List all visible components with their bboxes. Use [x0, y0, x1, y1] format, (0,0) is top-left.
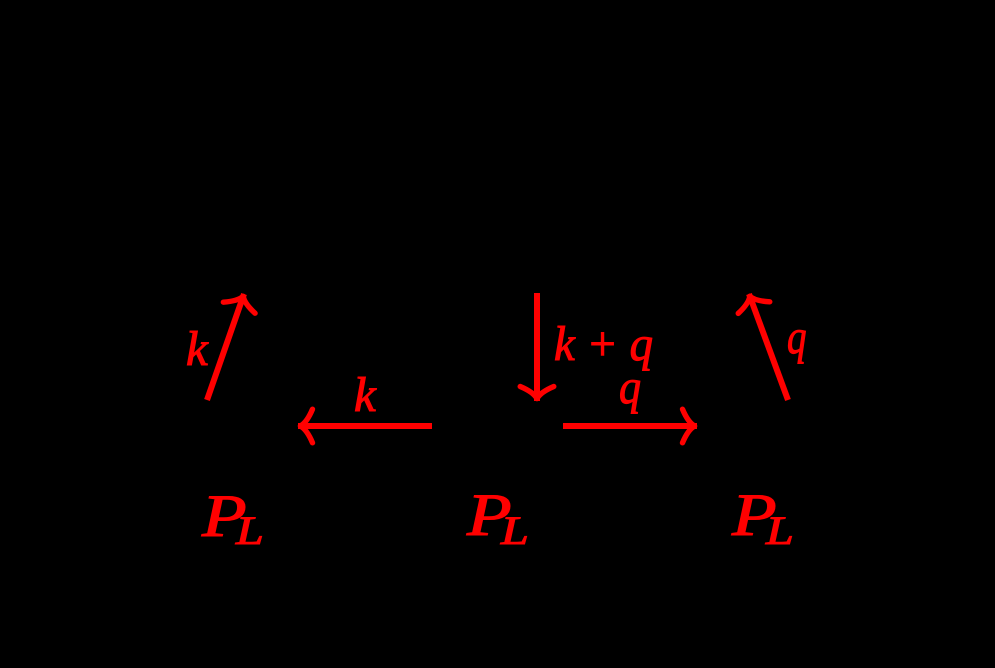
label P_L (left) — [201, 483, 264, 553]
label P_L (right) — [731, 482, 794, 553]
arrow k (horizontal, pointing left) — [298, 409, 432, 443]
label P_L (middle) — [466, 482, 529, 553]
arrow q (horizontal, pointing right) — [563, 409, 697, 443]
svg-text:L: L — [765, 509, 794, 553]
svg-text:q: q — [787, 309, 807, 364]
svg-text:L: L — [235, 509, 264, 553]
arrow k+q (middle, vertical down) — [520, 293, 554, 401]
svg-text:L: L — [500, 509, 529, 553]
svg-text:k: k — [354, 367, 377, 422]
arrow q (right, diagonal up-left) — [734, 290, 788, 400]
svg-text:q: q — [619, 359, 641, 414]
arrow k (left, diagonal up-right) — [207, 291, 259, 400]
svg-text:k: k — [186, 321, 209, 376]
